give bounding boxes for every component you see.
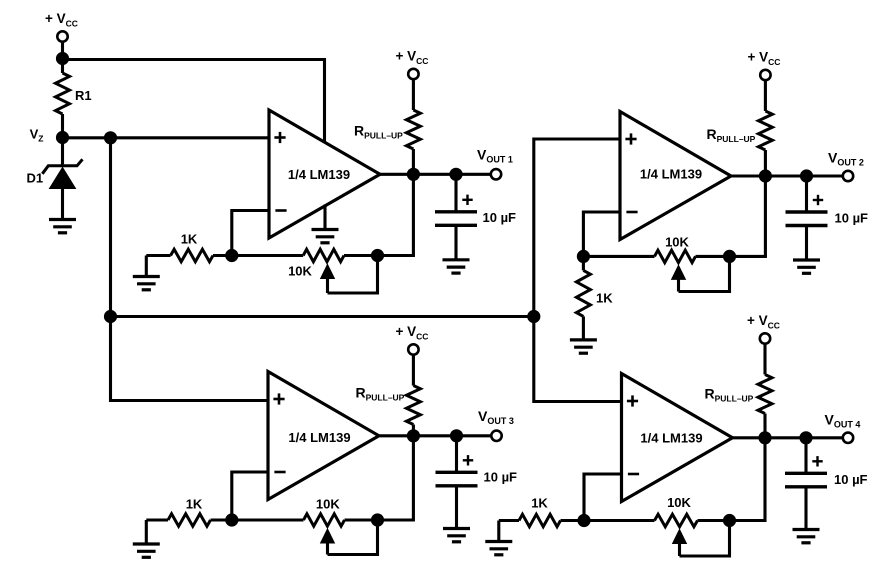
ground (1K U3) — [133, 542, 160, 545]
potentiometer wiper arrow (U2) — [672, 265, 686, 279]
svg-text:10 µF: 10 µF — [483, 210, 517, 225]
terminal VOUT 1 — [491, 169, 501, 179]
potentiometer 10K (U3) — [232, 518, 304, 521]
resistor RPULL-UP 1 — [412, 79, 415, 110]
svg-text:1/4 LM139: 1/4 LM139 — [640, 167, 702, 182]
junction dot VZ bus tap — [104, 131, 117, 144]
wire 1K to ground (U3) — [145, 520, 148, 544]
op-amp U2 inverting pin − — [626, 211, 637, 214]
wire pot node to output (U4) — [730, 438, 766, 521]
wire U1 V− pin to ground — [323, 205, 326, 230]
wire U1 output — [378, 173, 491, 176]
terminal VOUT 3 — [491, 431, 501, 441]
resistor 1K (U4) — [499, 519, 519, 522]
svg-text:1/4 LM139: 1/4 LM139 — [288, 430, 350, 445]
wire VCC rail to U1 V+ pin — [63, 60, 325, 144]
junction dot divider node 1 — [225, 249, 238, 262]
wire bus vertical right up to U2 noninverting input — [534, 139, 620, 317]
junction dot divider node 4 — [577, 514, 590, 527]
op-amp U2 1/4 LM139 — [620, 112, 731, 240]
op-amp U4 inverting pin − — [628, 473, 639, 476]
ground (capacitor C1) — [443, 258, 470, 261]
wire U2 output — [729, 174, 843, 177]
terminal VOUT 2 — [843, 171, 853, 181]
wire U3 inverting input to divider — [232, 472, 268, 520]
resistor RPULL-UP 4 — [763, 344, 766, 375]
potentiometer wiper arrow (U1) — [321, 265, 335, 279]
junction dot divider node 2 — [577, 250, 590, 263]
svg-text:10 µF: 10 µF — [835, 211, 869, 226]
terminal +VCC (pull-up 1) — [408, 69, 418, 79]
svg-text:1K: 1K — [596, 291, 613, 306]
ground (1K U2) — [570, 338, 597, 341]
potentiometer wiper arrow (U4) — [673, 530, 687, 544]
svg-text:R1: R1 — [75, 88, 92, 103]
junction dot pot right node 4 — [723, 514, 736, 527]
terminal +VCC supply (top left) — [57, 31, 67, 41]
wire bus vertical right down to U4 noninverting input — [534, 317, 622, 402]
svg-text:1/4 LM139: 1/4 LM139 — [640, 431, 702, 446]
junction dot VCC rail — [56, 52, 69, 65]
potentiometer 10K (U2) — [583, 255, 654, 258]
terminal +VCC (pull-up 2) — [760, 70, 770, 80]
ground (1K U1) — [133, 275, 160, 278]
wire bus vertical from VZ tap down to U3 input row — [111, 138, 269, 401]
capacitor C1 10 uF — [454, 174, 457, 212]
junction dot pot right node 2 — [723, 250, 736, 263]
node VZ junction dot — [56, 131, 69, 144]
junction dot bus left — [104, 310, 117, 323]
wire +VCC terminal to junction — [61, 42, 64, 59]
terminal VOUT 4 — [843, 433, 853, 443]
ground (zener D1) — [49, 218, 76, 221]
op-amp U1 1/4 LM139 — [269, 110, 380, 238]
op-amp U3 noninverting pin + — [273, 398, 284, 401]
ground (capacitor C2) — [793, 258, 820, 261]
svg-text:1/4 LM139: 1/4 LM139 — [288, 167, 350, 182]
potentiometer 10K (U4) — [584, 519, 655, 522]
ground (U1 V− pin) — [312, 228, 339, 231]
junction dot U4 output node — [758, 431, 771, 444]
resistor RPULL-UP 3 — [412, 355, 415, 386]
junction dot U1 output node — [407, 168, 420, 181]
wire pot node to output (U1) — [378, 174, 414, 255]
capacitor C2 10 uF — [805, 176, 808, 212]
wire pot node to output (U3) — [378, 436, 414, 520]
svg-text:D1: D1 — [27, 171, 44, 186]
wire wiper to pot end (U3) — [328, 520, 378, 555]
wire wiper to pot end (U2) — [679, 256, 730, 291]
svg-text:10 µF: 10 µF — [834, 472, 868, 487]
junction dot divider node 3 — [225, 513, 238, 526]
wire U2 inverting input to divider — [583, 212, 620, 256]
svg-text:1K: 1K — [531, 496, 548, 511]
wire 1K to ground (U1) — [145, 256, 148, 277]
ground (1K U4) — [485, 540, 512, 543]
svg-text:10K: 10K — [667, 495, 691, 510]
ground (capacitor C3) — [443, 527, 470, 530]
junction dot bus right — [527, 310, 540, 323]
op-amp U3 1/4 LM139 — [268, 372, 379, 500]
resistor R1 — [61, 59, 64, 74]
op-amp U1 inverting pin − — [275, 209, 286, 212]
svg-text:10 µF: 10 µF — [484, 470, 518, 485]
svg-text:10K: 10K — [288, 264, 312, 279]
wire bus horizontal — [111, 315, 534, 318]
junction dot U2 output node — [759, 169, 772, 182]
potentiometer wiper arrow (U3) — [321, 529, 335, 543]
wire U4 inverting input to divider — [584, 474, 622, 521]
svg-text:1K: 1K — [181, 232, 198, 247]
op-amp U1 noninverting pin + — [274, 136, 285, 139]
wire pot node to output (U2) — [730, 176, 766, 256]
wire wiper to pot end (U1) — [328, 256, 378, 294]
svg-text:10K: 10K — [665, 235, 689, 250]
wire 1K to ground (U4) — [497, 521, 500, 542]
op-amp U4 noninverting pin + — [627, 400, 638, 403]
op-amp U2 noninverting pin + — [625, 138, 636, 141]
wire U3 output — [377, 434, 492, 437]
resistor 1K (U2) — [582, 256, 585, 270]
terminal +VCC (pull-up 4) — [760, 333, 770, 343]
junction dot output/capacitor node 3 — [450, 429, 463, 442]
junction dot output/capacitor node 2 — [800, 169, 813, 182]
op-amp U4 1/4 LM139 — [622, 374, 733, 502]
junction dot pot right node 1 — [371, 249, 384, 262]
capacitor C3 10 uF — [455, 436, 458, 473]
wire node VZ to U1 noninverting input — [63, 136, 270, 139]
resistor RPULL-UP 2 — [764, 80, 767, 111]
wire U1 V+ supply stem — [323, 142, 326, 143]
zener diode D1 — [61, 138, 64, 166]
op-amp U3 inverting pin − — [274, 471, 285, 474]
svg-text:10K: 10K — [316, 497, 340, 512]
wire wiper to pot end (U4) — [680, 521, 730, 557]
wire U4 output — [731, 436, 844, 439]
capacitor C4 10 uF — [804, 438, 807, 474]
junction dot U3 output node — [407, 429, 420, 442]
wire U1 inverting input to divider — [232, 211, 269, 256]
junction dot output/capacitor node 1 — [449, 168, 462, 181]
terminal +VCC (pull-up 3) — [408, 344, 418, 354]
resistor 1K (U3) — [146, 518, 168, 521]
potentiometer 10K (U1) — [232, 254, 303, 257]
resistor 1K (U1) — [146, 254, 170, 257]
junction dot pot right node 3 — [371, 513, 384, 526]
junction dot output/capacitor node 4 — [799, 431, 812, 444]
svg-text:1K: 1K — [186, 497, 203, 512]
ground (capacitor C4) — [793, 528, 820, 531]
